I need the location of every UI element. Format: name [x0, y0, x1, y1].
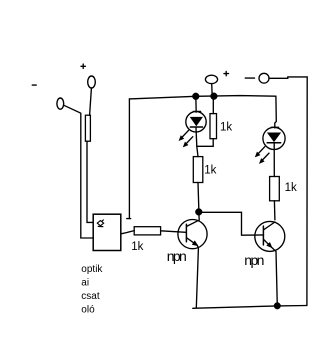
- svg-text:ai: ai: [81, 278, 89, 289]
- svg-text:csat: csat: [81, 291, 100, 302]
- svg-text:1k: 1k: [220, 122, 232, 134]
- svg-text:1k: 1k: [131, 241, 143, 253]
- svg-text:npn: npn: [244, 252, 263, 268]
- svg-text:optik: optik: [81, 264, 103, 275]
- svg-text:1k: 1k: [204, 164, 216, 176]
- svg-text:oló: oló: [81, 305, 95, 316]
- svg-text:npn: npn: [167, 248, 186, 264]
- svg-text:1k: 1k: [285, 182, 297, 194]
